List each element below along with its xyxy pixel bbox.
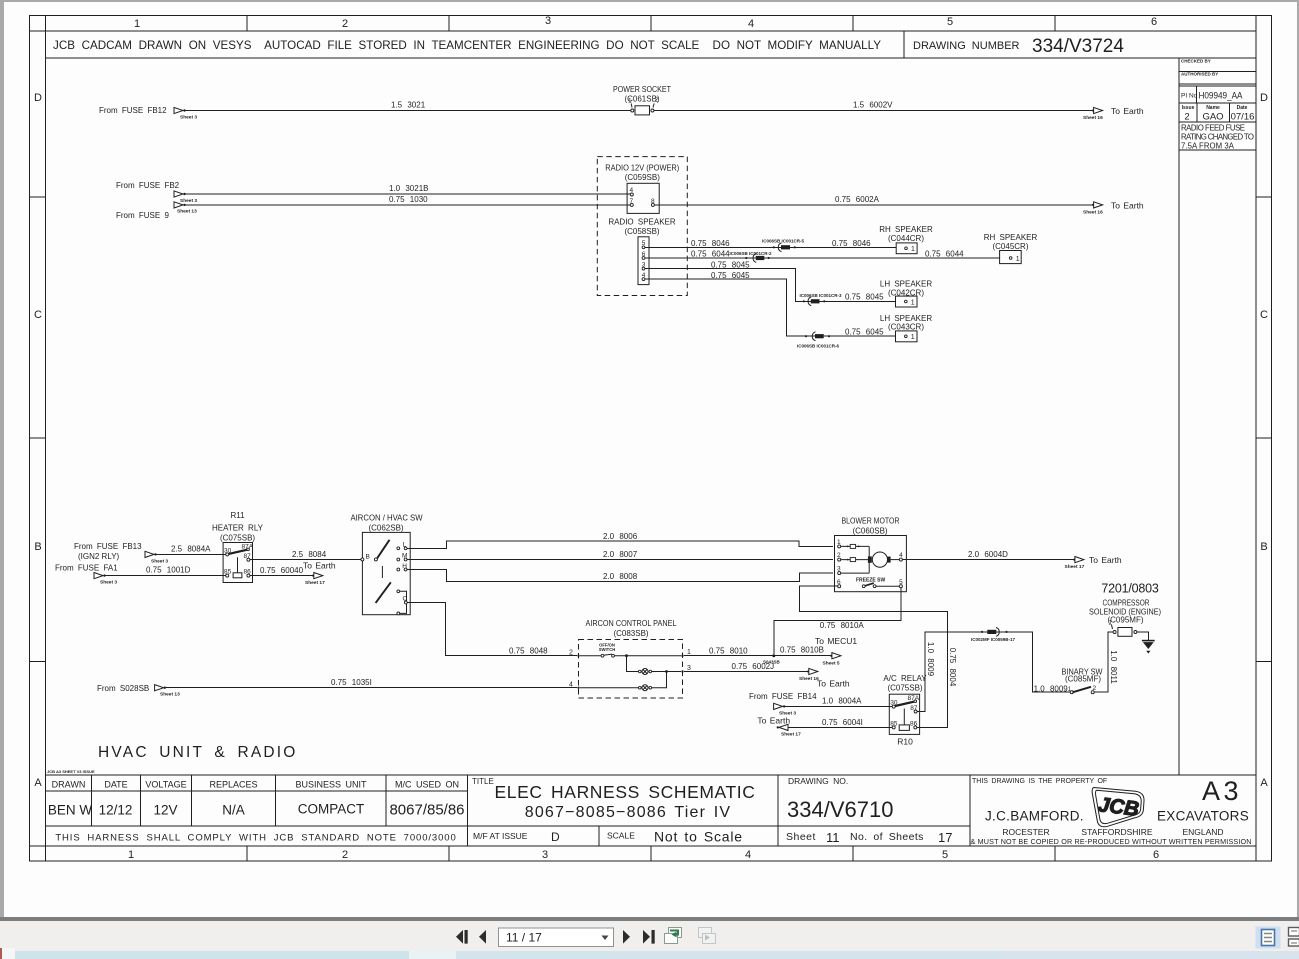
svg-text:3: 3 [545,15,551,27]
title block [46,775,1257,846]
continuous view btn (partial) [1289,928,1299,947]
connector C058SB RADIO SPEAKER [608,218,676,285]
svg-text:0.75 1030: 0.75 1030 [389,195,428,204]
svg-text:2.0 8007: 2.0 8007 [603,550,638,559]
svg-text:THIS HARNESS SHALL COMPLY WITH: THIS HARNESS SHALL COMPLY WITH JCB STAND… [55,833,456,844]
svg-text:Sheet 3: Sheet 3 [180,198,197,204]
svg-text:STAFFORDSHIRE: STAFFORDSHIRE [1081,827,1152,837]
wire to ground [1137,632,1148,640]
off-sheet source FROM FUSE FA1 [55,564,118,586]
off-sheet earth (6002J) [799,668,850,688]
svg-text:EXCAVATORS: EXCAVATORS [1157,809,1249,824]
motor M [868,556,872,562]
inline connector IC002MF IC0059B-17 [971,628,1016,643]
svg-text:Sheet 3: Sheet 3 [151,559,168,565]
svg-text:0.75 8046: 0.75 8046 [691,239,730,248]
zone numbers top [134,15,1157,30]
svg-text:RADIO SPEAKER: RADIO SPEAKER [608,218,676,227]
svg-text:JCB A3 SHEET V3 ISSUE: JCB A3 SHEET V3 ISSUE [47,769,95,774]
svg-text:7201/0803: 7201/0803 [1101,582,1159,596]
wire 6002A [654,204,1093,206]
svg-text:0.75 8010: 0.75 8010 [709,646,748,655]
svg-text:Sheet: Sheet [786,831,816,843]
wire 8004A [785,705,893,707]
svg-text:THIS DRAWING IS THE PROPERTY O: THIS DRAWING IS THE PROPERTY OF [972,778,1107,785]
svg-text:334/V6710: 334/V6710 [787,797,893,822]
svg-text:(C044CR): (C044CR) [888,234,924,243]
svg-text:Sheet 17: Sheet 17 [1065,564,1085,570]
svg-text:Issue: Issue [1182,105,1195,111]
svg-text:To Earth: To Earth [817,679,850,689]
svg-text:& MUST NOT BE COPIED OR RE-PRO: & MUST NOT BE COPIED OR RE-PRODUCED WITH… [971,837,1252,846]
svg-text:4: 4 [748,18,754,30]
svg-text:J.C.BAMFORD.: J.C.BAMFORD. [985,809,1084,824]
svg-text:1.0 3021B: 1.0 3021B [389,184,428,193]
last page btn [643,930,655,944]
wire 8084 [250,559,361,561]
svg-text:M/C USED ON: M/C USED ON [395,780,459,790]
wire 6045 [645,279,896,336]
svg-text:2: 2 [342,849,348,861]
svg-text:From FUSE 9: From FUSE 9 [116,211,169,220]
svg-text:(C060SB): (C060SB) [852,526,887,535]
svg-text:1: 1 [128,849,134,861]
off-sheet source FROM FUSE FB12 [99,106,197,121]
svg-text:To MECU1: To MECU1 [815,636,857,646]
wire 8046 [645,246,896,248]
wire 8045 [645,269,896,302]
relay R11 HEATER RLY (C075SB) [212,511,264,583]
wire 8010A (blower pin5 to node S043SB) [774,588,901,655]
off-sheet arrow To MECU1 [815,636,857,666]
pin 1 [630,104,633,108]
svg-text:From FUSE FB2: From FUSE FB2 [116,181,180,190]
svg-text:No. of Sheets: No. of Sheets [850,831,924,843]
svg-text:(C075SB): (C075SB) [220,534,255,543]
svg-text:Sheet 13: Sheet 13 [177,209,197,215]
svg-text:B: B [34,541,41,553]
svg-text:0.75 1001D: 0.75 1001D [146,566,191,575]
off-sheet source FROM S028SB [97,684,180,698]
svg-text:0.75 8010B: 0.75 8010B [780,645,824,654]
svg-text:D: D [551,830,560,844]
svg-text:0.75 8004: 0.75 8004 [948,648,957,687]
svg-text:Sheet 16: Sheet 16 [1083,210,1103,216]
pin 1 [681,655,683,657]
svg-text:To Earth: To Earth [1089,555,1122,565]
svg-text:2.0 6004D: 2.0 6004D [968,550,1008,559]
svg-text:(C075SB): (C075SB) [887,684,922,693]
svg-text:3: 3 [542,849,548,861]
svg-text:C: C [34,309,42,321]
svg-text:2.0 8006: 2.0 8006 [603,532,638,541]
svg-text:RH SPEAKER: RH SPEAKER [879,225,933,234]
svg-text:6: 6 [1151,16,1157,28]
svg-text:Sheet 13: Sheet 13 [160,692,180,698]
svg-text:LH SPEAKER: LH SPEAKER [880,280,932,289]
next page btn [623,930,630,944]
svg-text:HEATER RLY: HEATER RLY [212,524,264,533]
svg-text:7.5A FROM 3A: 7.5A FROM 3A [1181,142,1235,151]
svg-text:From FUSE FB12: From FUSE FB12 [99,106,167,115]
pin C cluster [397,590,400,593]
wire 3021B [185,193,630,195]
svg-text:To Earth: To Earth [1111,106,1144,116]
off-sheet source FROM FUSE FB13 (IGN2 RLY) [74,542,168,565]
prev view icon [665,928,682,944]
off-sheet source FROM FUSE FB14 [749,692,817,717]
svg-text:From FUSE FB14: From FUSE FB14 [749,692,817,701]
svg-text:1: 1 [911,334,915,341]
single page view btn (active) [1256,927,1281,949]
zone numbers bottom [128,849,1159,861]
svg-text:R11: R11 [230,511,245,520]
wire 6002J [684,671,809,673]
svg-text:6: 6 [1153,849,1159,861]
svg-text:POWER SOCKET: POWER SOCKET [613,85,671,94]
svg-text:0.75 6002A: 0.75 6002A [835,195,880,204]
svg-text:8067/85/86: 8067/85/86 [389,802,464,819]
svg-text:A/C RELAY: A/C RELAY [883,674,927,683]
svg-text:0.75 6004I: 0.75 6004I [822,718,863,727]
svg-text:2: 2 [342,18,348,30]
svg-text:1.5 3021: 1.5 3021 [391,101,426,110]
svg-text:D: D [34,92,42,104]
svg-text:AIRCON / HVAC SW: AIRCON / HVAC SW [351,514,423,523]
svg-text:R10: R10 [897,737,913,747]
svg-text:12/12: 12/12 [99,803,133,818]
svg-text:Not to Scale: Not to Scale [654,829,743,845]
svg-text:2.5 8084: 2.5 8084 [292,550,327,559]
svg-text:0.75 6045: 0.75 6045 [711,271,750,280]
svg-text:GAO: GAO [1202,112,1223,123]
svg-text:87A: 87A [242,543,254,550]
wire 8010 / 8010B (panel pin1 to MECU1) [684,655,832,657]
svg-text:1: 1 [628,98,632,105]
ground (engine) [1142,641,1155,654]
svg-text:Sheet 17: Sheet 17 [305,580,325,586]
svg-text:Sheet 3: Sheet 3 [180,115,197,121]
svg-text:0.75 6044: 0.75 6044 [691,250,730,259]
svg-text:0.75 8010A: 0.75 8010A [820,621,865,630]
svg-text:1: 1 [911,246,915,253]
svg-text:Sheet 3: Sheet 3 [100,580,117,586]
svg-text:AUTHORISED BY: AUTHORISED BY [1181,72,1218,77]
svg-text:(C085MF): (C085MF) [1065,674,1101,683]
svg-text:1.0 8009: 1.0 8009 [926,642,935,677]
off-sheet source FROM FUSE FB2 [116,181,197,204]
svg-text:Date: Date [1237,105,1248,111]
compressor solenoid C095MF [1089,582,1161,637]
wire 8004 (blower pin6 to R10 pin86) [800,586,948,727]
connector C045CR RH SPEAKER [984,233,1038,264]
svg-text:RH SPEAKER: RH SPEAKER [984,233,1038,242]
off-sheet source FROM FUSE 9 [116,202,197,220]
svg-text:JCB CADCAM DRAWN ON VESYS AUT: JCB CADCAM DRAWN ON VESYS AUTOCAD FILE S… [53,38,881,52]
wire 8008 [407,570,833,582]
svg-text:C: C [1260,309,1268,321]
svg-text:DRAWING NUMBER: DRAWING NUMBER [913,40,1020,52]
svg-text:BEN W: BEN W [48,803,93,818]
svg-text:0.75 8046: 0.75 8046 [832,239,871,248]
svg-text:(C083SB): (C083SB) [613,629,648,638]
node S043SB [772,654,775,657]
svg-text:IC006SB IC001CR-5: IC006SB IC001CR-5 [762,239,805,244]
next view icon (disabled) [699,928,716,944]
radio dashed enclosure [597,157,687,296]
wire 1030 [185,204,630,206]
svg-text:FREEZE SW: FREEZE SW [856,578,885,584]
pin 4 [577,687,579,689]
wire 1035I [165,687,577,689]
svg-text:17: 17 [938,830,952,845]
svg-text:0.75 60040: 0.75 60040 [260,566,304,575]
svg-text:0.75 8045: 0.75 8045 [845,293,884,302]
pin 2 [653,104,654,108]
svg-text:(C043CR): (C043CR) [888,323,924,332]
svg-text:Sheet 5: Sheet 5 [823,660,840,666]
off-sheet earth (60040) [303,561,336,586]
svg-text:11: 11 [826,830,840,845]
prev page btn [479,930,486,944]
aircon control panel C083SB [569,619,691,698]
svg-text:D: D [1260,92,1268,104]
svg-text:1: 1 [911,299,915,306]
power socket C061SB [613,85,671,115]
svg-text:DRAWING NO.: DRAWING NO. [788,776,848,786]
svg-text:HVAC UNIT & RADIO: HVAC UNIT & RADIO [98,744,298,761]
first page btn [456,930,468,944]
svg-text:5: 5 [947,16,953,28]
svg-text:Name: Name [1206,105,1220,111]
svg-text:1.0 8011: 1.0 8011 [1109,650,1118,684]
svg-text:REPLACES: REPLACES [209,780,257,790]
inline connector IC006SB IC001CR-3 [800,293,843,306]
svg-text:(IGN2 RLY): (IGN2 RLY) [78,552,120,561]
wire 6044 [645,257,1000,259]
svg-text:0.75 8045: 0.75 8045 [711,260,750,269]
svg-text:COMPRESSOR: COMPRESSOR [1103,599,1150,608]
svg-text:1.0 8004A: 1.0 8004A [822,697,862,706]
zone letters [34,92,1268,789]
svg-text:RATING CHANGED TO: RATING CHANGED TO [1181,133,1254,142]
svg-text:1: 1 [687,649,691,656]
JCB logo [1092,788,1144,827]
svg-text:(C059SB): (C059SB) [625,173,660,182]
svg-text:COMPACT: COMPACT [298,802,365,817]
svg-text:0.75 6002J: 0.75 6002J [732,662,775,671]
wire 3021 [185,110,631,112]
svg-text:CHECKED BY: CHECKED BY [1181,59,1211,64]
svg-text:From FUSE FA1: From FUSE FA1 [55,564,118,573]
blower motor C060SB [835,517,907,592]
svg-text:07/16: 07/16 [1231,112,1255,123]
svg-text:A3: A3 [1202,776,1242,806]
svg-text:334/V3724: 334/V3724 [1032,36,1124,57]
svg-text:Sheet 16: Sheet 16 [1083,115,1103,121]
svg-text:1.0 8009: 1.0 8009 [1034,684,1069,693]
wire 8084A [156,553,226,555]
connector C043CR LH SPEAKER [880,314,932,342]
wire 8011 (binary sw to compressor solenoid) [1094,632,1113,692]
svg-text:2.5 8084A: 2.5 8084A [171,545,211,554]
svg-text:0.75 6045: 0.75 6045 [845,327,884,336]
svg-text:BLOWER MOTOR: BLOWER MOTOR [842,517,900,526]
svg-text:87A: 87A [908,695,920,702]
svg-text:12V: 12V [153,803,177,818]
svg-text:TITLE: TITLE [472,777,494,786]
svg-text:PI No: PI No [1181,93,1198,100]
svg-text:2.0 8008: 2.0 8008 [603,572,638,581]
off-sheet earth (6004I) [757,715,801,737]
svg-text:Sheet 17: Sheet 17 [781,732,801,738]
binary switch C085MF [1062,668,1103,694]
svg-text:IC002MF IC0059B-17: IC002MF IC0059B-17 [971,637,1016,642]
svg-text:RADIO 12V (POWER): RADIO 12V (POWER) [605,164,679,173]
wire 8007 [407,559,833,561]
off-sheet earth (6002A) [1083,201,1144,216]
svg-text:(C045CR): (C045CR) [992,242,1028,251]
svg-text:BUSINESS UNIT: BUSINESS UNIT [295,780,367,790]
wire 1001D [105,575,226,577]
page number box [499,928,614,947]
svg-text:IC006SB IC001CR-3: IC006SB IC001CR-3 [800,293,843,298]
svg-text:4: 4 [745,849,751,861]
svg-text:To Earth: To Earth [757,715,790,725]
svg-text:(C058SB): (C058SB) [624,227,659,236]
junction [625,654,628,657]
svg-text:VOLTAGE: VOLTAGE [145,780,186,790]
pin 3 [681,670,683,672]
inline connector IC006SB IC001CR-5 [762,239,805,252]
branch 2 [652,672,667,688]
svg-text:5: 5 [942,849,948,861]
relay R10 A/C RELAY (C075SB) [883,674,927,747]
svg-text:8067−8085−8086 Tier IV: 8067−8085−8086 Tier IV [525,804,732,821]
svg-text:ELEC HARNESS SCHEMATIC: ELEC HARNESS SCHEMATIC [494,782,755,802]
revision box [1179,58,1256,775]
svg-text:1.5 6002V: 1.5 6002V [853,101,893,110]
svg-text:11 / 17: 11 / 17 [506,931,542,945]
svg-text:AIRCON CONTROL PANEL: AIRCON CONTROL PANEL [586,619,678,628]
off-sheet earth (6002V) [1083,106,1144,121]
svg-text:From S028SB: From S028SB [97,684,149,693]
svg-text:DATE: DATE [104,780,127,790]
svg-text:0.75 1035I: 0.75 1035I [331,678,372,687]
svg-text:B: B [366,554,370,561]
connector C042CR LH SPEAKER [880,280,932,308]
svg-text:IC006SB IC001CR-6: IC006SB IC001CR-6 [797,344,840,349]
svg-text:2: 2 [569,649,573,656]
svg-text:2: 2 [1184,112,1189,123]
svg-text:ENGLAND: ENGLAND [1182,827,1223,837]
connector C044CR RH SPEAKER [879,225,933,254]
svg-text:1: 1 [1016,256,1020,263]
wire 8048 (HVAC C pin to panel pin2) [407,603,577,656]
svg-text:A: A [1260,777,1268,789]
svg-text:RADIO FEED FUSE: RADIO FEED FUSE [1181,124,1245,133]
wire 6002V [654,110,1094,112]
wire 60040 [250,575,314,577]
svg-text:N/A: N/A [222,803,245,818]
svg-text:H09949_AA: H09949_AA [1199,91,1244,102]
inline connector IC006SB IC001CR-6 [797,332,840,349]
wire 6004I [788,726,892,728]
svg-text:0.75 6044: 0.75 6044 [925,250,964,259]
svg-text:3: 3 [687,665,691,672]
switch C062SB AIRCON / HVAC SW [351,514,423,615]
svg-text:0.75 8048: 0.75 8048 [509,646,548,655]
inline connector IC006SB IC001CR-2 [730,251,773,262]
wire 8006 [407,541,833,549]
svg-text:M/F AT ISSUE: M/F AT ISSUE [473,831,528,841]
svg-text:(C095MF): (C095MF) [1107,616,1143,625]
off-sheet earth (6004D) [1065,555,1122,570]
svg-text:To Earth: To Earth [303,561,336,571]
svg-text:LH SPEAKER: LH SPEAKER [880,314,932,323]
svg-text:DRAWN: DRAWN [52,780,86,790]
svg-text:To Earth: To Earth [1111,201,1144,211]
wire 8009 (R10 pin87 to binary switch) [917,632,1070,712]
svg-text:ROCESTER: ROCESTER [1002,827,1049,837]
svg-text:B: B [1260,541,1267,553]
svg-text:2: 2 [655,97,659,104]
svg-text:SWITCH: SWITCH [599,647,616,652]
connector C059SB RADIO 12V (POWER) [605,164,679,214]
svg-text:C: C [403,596,408,603]
svg-text:A: A [34,777,42,789]
thermistor branch [627,656,639,672]
wire 6004D [902,559,1075,561]
svg-text:1: 1 [134,18,140,30]
svg-text:From FUSE FB13: From FUSE FB13 [74,542,142,551]
svg-text:SCALE: SCALE [607,831,635,841]
svg-text:IC006SB IC001CR-2: IC006SB IC001CR-2 [730,251,773,256]
svg-text:(C062SB): (C062SB) [368,524,403,533]
